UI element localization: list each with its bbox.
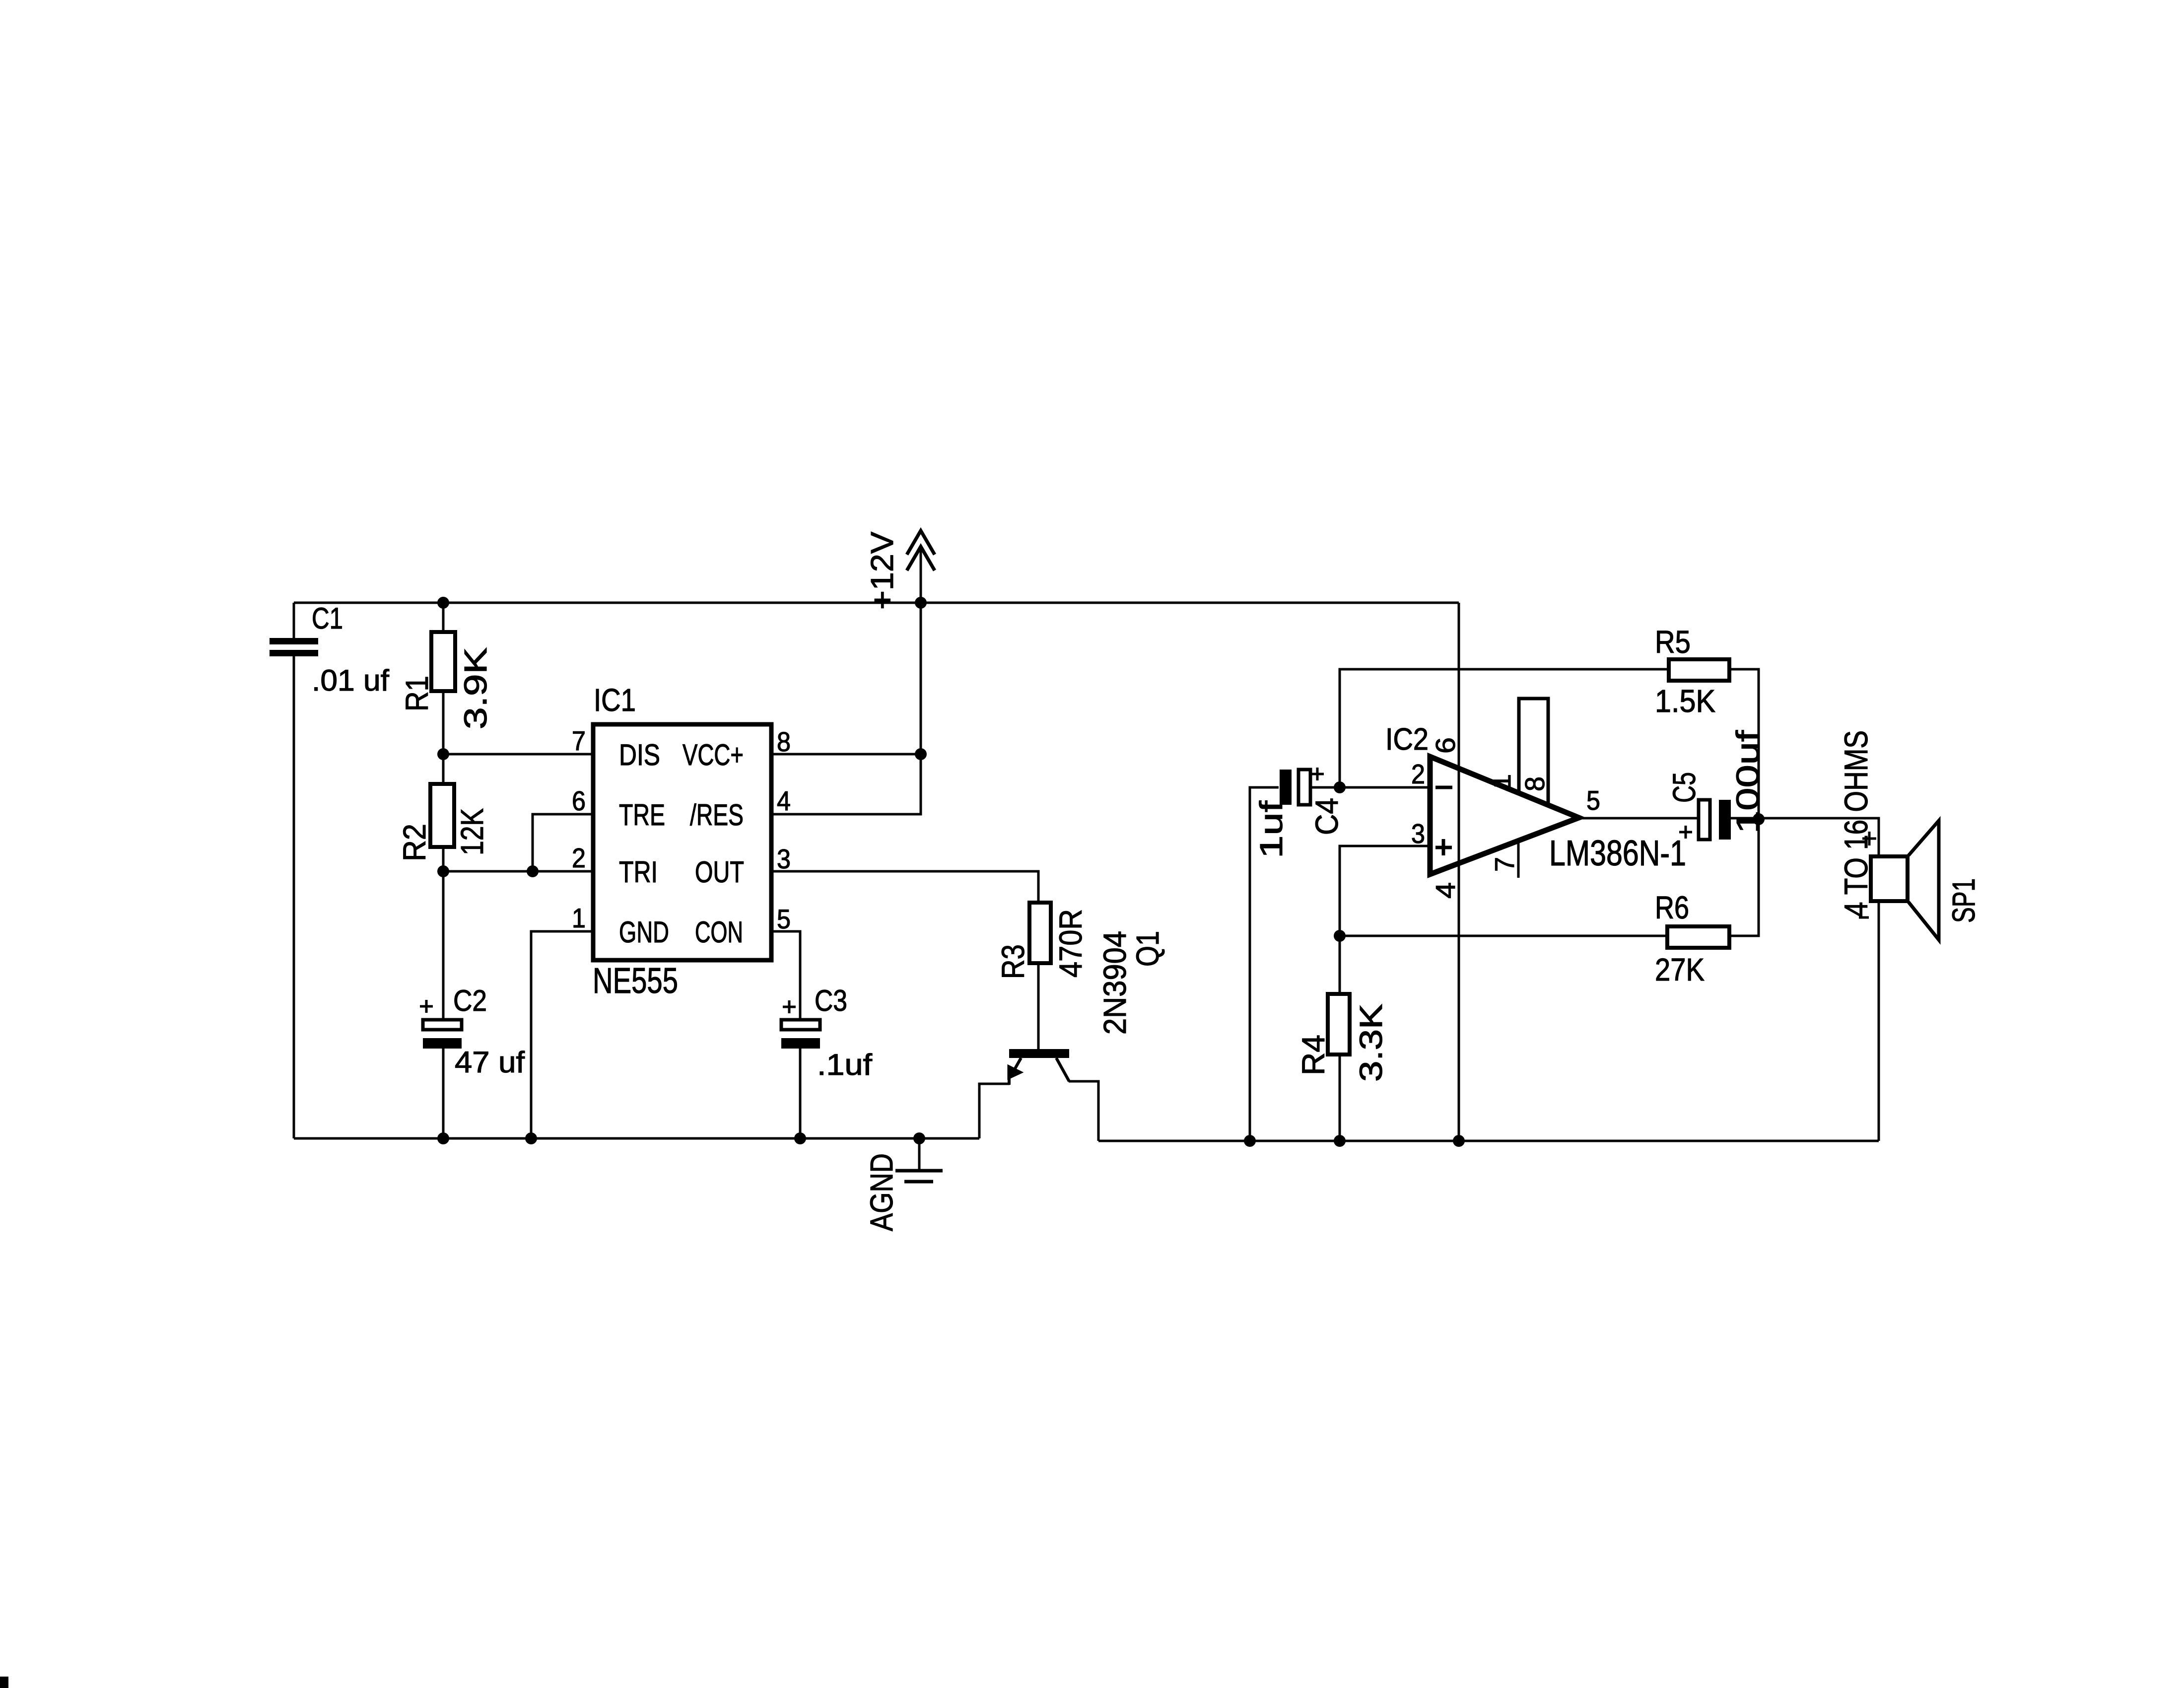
ground AGND symbol [895,1171,943,1182]
svg-text:3: 3 [1411,818,1425,849]
svg-text:5: 5 [777,904,791,934]
capacitor C5 [1699,800,1731,840]
svg-text:3.3K: 3.3K [1353,1004,1389,1082]
transistor Q1 collector diagonal [1056,1058,1069,1081]
wire Q1 collector down [1069,1081,1098,1141]
svg-text:2N3904: 2N3904 [1097,931,1133,1035]
node C3 ground [794,1132,806,1144]
capacitor C2 plus mark [420,1000,433,1013]
IC2 pins 1-8 gain rectangle [1519,699,1548,805]
svg-text:4: 4 [1430,882,1461,899]
svg-text:R5: R5 [1655,624,1691,660]
svg-text:8: 8 [777,726,791,757]
IC2 inverting input minus symbol [1435,786,1452,789]
power +12V arrow [907,531,935,570]
node IC2 pin4 bus [1453,1135,1465,1147]
node TRE TRI [527,865,539,877]
wire Q1 emitter to ground bus [979,1084,1010,1138]
wire top +12V bus [294,602,1459,604]
wire C4 right lead [1311,786,1340,789]
wire R3 bottom to Q1 base [1037,963,1040,1049]
wire pin5 CON to C3 [771,931,800,1020]
svg-text:LM386N-1: LM386N-1 [1549,834,1686,873]
capacitor C1 [270,638,318,656]
wire pin2 TRI to IC1 [443,870,593,873]
speaker SP1 horn [1909,821,1939,940]
node R4 bus [1334,1135,1346,1147]
wire R4 bottom lead [1339,1055,1341,1141]
wire IC2 output to C5 [1579,817,1698,820]
svg-text:1uf: 1uf [1253,801,1289,858]
wire AGND stub [918,1138,921,1170]
svg-text:12K: 12K [454,808,490,855]
wire R5 right to C5 node [1729,669,1759,819]
svg-text:C1: C1 [312,602,343,635]
wire R6 right to C5 node [1729,819,1759,936]
wire pin4 /RES jog up to +12V node [771,754,921,814]
svg-text:R4: R4 [1296,1035,1331,1075]
svg-text:C4: C4 [1309,798,1345,835]
corner scan mark [0,1677,8,1688]
resistor R3 [1029,903,1051,963]
svg-text:1.5K: 1.5K [1655,683,1715,719]
wire node to speaker + [1759,818,1879,856]
svg-text:.01 uf: .01 uf [312,664,389,697]
svg-text:3.9K: 3.9K [458,647,493,729]
node R4 R6 pin3 [1334,930,1346,942]
svg-text:VCC+: VCC+ [682,738,744,772]
capacitor C3 [781,1020,820,1049]
node C4 bus [1244,1135,1256,1147]
speaker plus mark [1862,832,1876,845]
wire C3 bottom to ground bus [799,1048,802,1138]
svg-text:6: 6 [572,785,586,816]
svg-text:TRI: TRI [619,855,658,889]
node C4 pin2 R5 [1334,781,1346,793]
svg-text:7: 7 [572,725,586,756]
svg-text:C3: C3 [815,984,847,1017]
svg-text:C2: C2 [453,984,487,1017]
resistor R6 [1667,926,1729,948]
resistor R2 [430,784,454,847]
resistor R1 [431,632,455,691]
svg-text:TRE: TRE [619,798,665,832]
wire C1 top lead [293,603,295,640]
svg-text:4 TO 16 OHMS: 4 TO 16 OHMS [1838,730,1874,917]
svg-text:NE555: NE555 [593,961,678,1001]
svg-text:8: 8 [1519,776,1550,791]
wire node to R5 [1340,669,1669,787]
wire C2 bottom to ground bus [442,1048,445,1138]
svg-text:IC1: IC1 [594,682,636,718]
svg-text:/RES: /RES [690,798,744,832]
node C5 R5 R6 [1753,813,1765,825]
wire R1 top lead [442,603,445,632]
transistor Q1 emitter arrow [1008,1065,1022,1079]
wire +12V stub [920,548,922,754]
transistor Q1 base bar [1009,1049,1069,1058]
svg-text:470R: 470R [1053,909,1089,978]
node R1 top bus [437,597,449,609]
wire pin3 riser to IC2 [1340,846,1430,936]
wire pin3 OUT to R3 [771,871,1038,903]
svg-text:Q1: Q1 [1130,931,1165,967]
svg-text:6: 6 [1430,737,1461,754]
node R1 R2 pin7 [437,748,449,760]
capacitor C2 [423,1020,462,1049]
node pin8 pin4 +12V [915,748,927,760]
svg-text:2: 2 [572,843,586,873]
wire R2 bottom to C2 [442,847,445,1020]
svg-text:27K: 27K [1655,952,1705,987]
node +12V bus [915,597,927,609]
wire R4 top lead [1339,936,1341,994]
svg-text:.1uf: .1uf [817,1048,872,1081]
svg-text:R1: R1 [399,676,435,711]
node R2 TRI [437,865,449,877]
speaker SP1 body [1871,856,1908,901]
IC2 pin 7 bypass stub [1517,841,1520,878]
wire C1 bottom lead to ground bus [293,655,295,1138]
wire IC2 pin6/pin4 power line [1458,603,1460,1141]
wire node to R6 [1340,935,1667,937]
svg-text:GND: GND [619,915,669,949]
wire pin7 DIS to IC1 [443,753,593,756]
transistor Q1 emitter diagonal [1013,1058,1021,1073]
svg-text:R2: R2 [397,824,432,861]
svg-text:AGND: AGND [864,1153,899,1231]
wire pin8 VCC+ to +12V [771,753,921,756]
wire C5 to node [1731,817,1759,820]
svg-text:5: 5 [1586,785,1600,816]
wire speaker return [1878,901,1880,1141]
svg-text:4: 4 [777,785,791,816]
svg-text:SP1: SP1 [1946,878,1981,923]
svg-text:47 uf: 47 uf [455,1046,525,1079]
IC2 non-inverting input plus symbol [1435,839,1452,855]
svg-text:IC2: IC2 [1385,722,1429,757]
IC1 NE555 box [593,724,771,960]
resistor R4 [1328,994,1350,1055]
svg-text:3: 3 [777,844,791,874]
svg-text:+12V: +12V [864,532,900,610]
capacitor C4 [1280,770,1310,805]
svg-text:7: 7 [1489,857,1520,872]
transistor Q1 emitter lead [1008,1077,1011,1085]
svg-text:OUT: OUT [695,855,744,889]
svg-text:CON: CON [695,915,743,949]
wire pin2 to IC2 [1340,786,1430,789]
capacitor C3 plus mark [783,1000,796,1013]
svg-text:2: 2 [1411,759,1425,789]
svg-text:DIS: DIS [619,738,660,772]
op-amp U IC2 triangle [1430,757,1579,874]
svg-text:R3: R3 [995,944,1031,979]
wire C4 left lead [1250,787,1279,1141]
node junction dots [437,597,1765,1147]
wire R1 to R2 [442,691,445,784]
capacitor C4 plus mark [1311,768,1324,780]
capacitor C5 plus mark [1679,826,1692,839]
wire pin1 GND to ground bus [531,931,593,1138]
resistor R5 [1669,659,1729,681]
node C2 ground [437,1132,449,1144]
wire pin6 TRE jog [533,814,593,871]
wire left ground bus [294,1137,979,1140]
wire right bottom bus [1098,1140,1879,1142]
speaker minus mark [1859,916,1869,919]
svg-text:1: 1 [572,903,586,933]
svg-text:1: 1 [1486,774,1516,789]
node AGND ground [913,1132,925,1144]
svg-text:R6: R6 [1655,890,1689,925]
svg-text:C5: C5 [1666,772,1702,803]
node pin1 ground [525,1132,537,1144]
